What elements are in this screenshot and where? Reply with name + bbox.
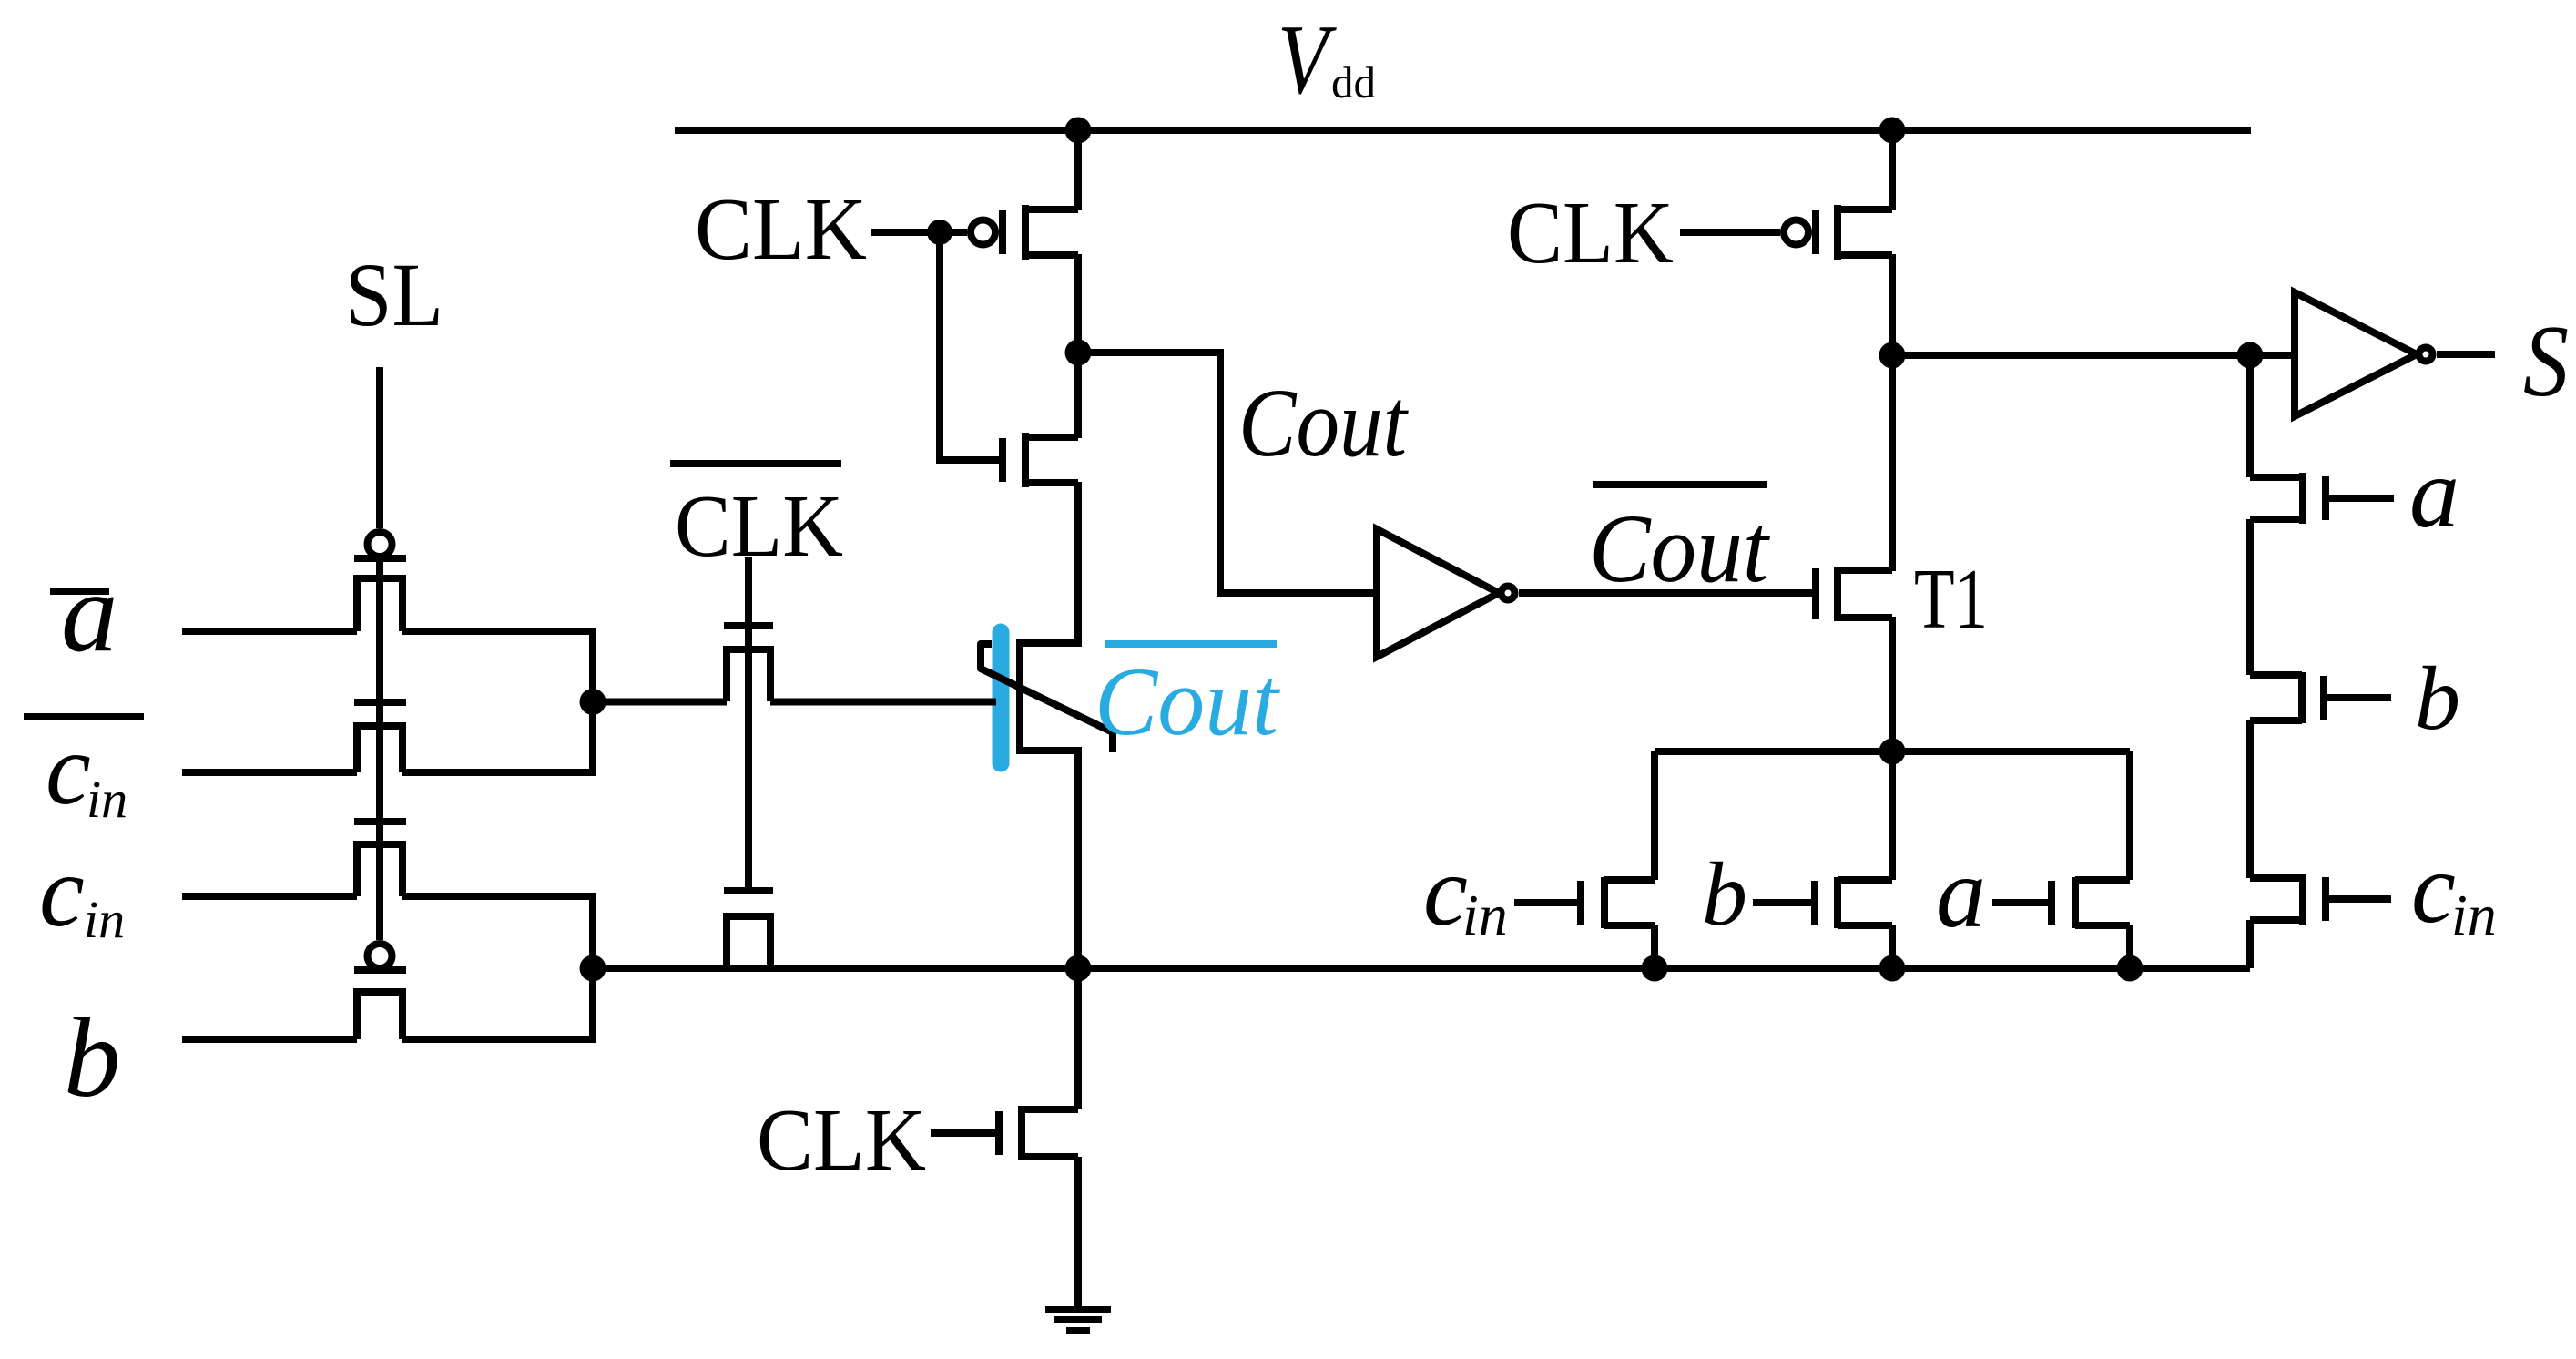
inverter U1 (Cout to Coutbar) <box>1377 529 1515 657</box>
transistor P7 channel bump <box>357 844 402 896</box>
transistor Q5 (NMOS, gate b, bottom row) <box>1815 877 1892 928</box>
svg-text:in: in <box>84 890 125 949</box>
wire CLK junction down to M2 gate <box>940 232 999 460</box>
node lower bus / left column <box>580 955 606 982</box>
transistor P8 (PMOS pass, input b) gate bar <box>354 966 406 974</box>
wire mid vertical M1 to M2 (Cout node segment) <box>1074 254 1082 438</box>
svg-text:CLK: CLK <box>1507 184 1674 281</box>
svg-text:c: c <box>46 713 91 826</box>
transistor P5 channel bump <box>357 578 402 631</box>
transistor P10 (pass, gate CLKbar, lower) gate bar <box>724 887 773 894</box>
wire CLKbar gate line <box>745 557 752 891</box>
svg-text:S: S <box>2523 305 2569 418</box>
transistor M3 (NMOS, gate CLK, bottom middle) <box>999 1106 1078 1160</box>
node S (right, at inverter input) <box>2237 342 2264 369</box>
transistor Q4 (NMOS, gate cin, bottom row) <box>1581 877 1655 928</box>
transistor M1 (PMOS, gate CLK, top middle) <box>971 205 1078 260</box>
transistor M4 (PMOS, gate CLK, top right) <box>1784 205 1892 260</box>
wire mid vertical M2 to FeFET <box>1074 482 1082 647</box>
transistor P6 (NMOS pass, input cinbar) gate bar <box>354 699 406 706</box>
node lower bus / FeFET column <box>1065 955 1092 982</box>
wire right vertical Vdd to M4 <box>1889 130 1896 210</box>
wire P9 to FeFET gate <box>770 699 996 706</box>
wire right stack vertical Q3 to lower bus <box>2246 920 2254 968</box>
power rail Vdd <box>675 127 2251 134</box>
node lower bus / Q6 <box>2117 955 2143 982</box>
wire b to lower bus <box>402 968 593 1039</box>
wire mid vertical FeFET to bus and M3 <box>1074 747 1082 1109</box>
wire mid vertical M3 to ground <box>1074 1157 1082 1310</box>
wire cin to Q3 gate <box>2327 895 2391 903</box>
svg-text:in: in <box>87 770 127 829</box>
wire abar to join column <box>402 631 593 701</box>
bubble SL / P5 gate <box>368 532 392 557</box>
transistor Q1 (NMOS, gate a, right stack) <box>2250 473 2326 524</box>
wire SL line lower <box>376 560 383 940</box>
wire Q4 to lower bus <box>1651 925 1658 968</box>
wire cin input <box>182 893 357 900</box>
svg-text:a: a <box>1936 837 1986 948</box>
node lower bus / Q4 <box>1642 955 1668 982</box>
svg-text:c: c <box>2411 833 2456 944</box>
svg-text:in: in <box>1462 883 1508 947</box>
wire right stack vertical Q1 to Q2 <box>2246 519 2254 675</box>
wire a to Q6 gate <box>1992 899 2048 906</box>
svg-text:c: c <box>1423 835 1468 946</box>
ground <box>1045 1310 1111 1331</box>
svg-text:CLK: CLK <box>675 477 843 575</box>
wire Cout node to inverter U1 input <box>1078 353 1377 593</box>
node Vdd / right column junction <box>1879 118 1906 144</box>
svg-text:CLK: CLK <box>695 180 867 278</box>
transistor M2 (NMOS, gate CLK, below M1) <box>1003 433 1078 487</box>
transistor P9 (pass, gate CLKbar, upper) gate bar <box>724 622 773 629</box>
transistor P5 (PMOS pass, input abar) gate bar <box>354 555 406 562</box>
wire abar input <box>182 628 357 635</box>
label cin (bottom row) <box>1423 835 1508 947</box>
bubble SL / P8 gate <box>368 944 392 968</box>
svg-text:b: b <box>64 996 121 1121</box>
label cin (left) <box>39 835 125 949</box>
wire right stack vertical S to Q1 <box>2246 355 2254 477</box>
node CLK junction <box>927 220 952 245</box>
wire CLK to M3 gate <box>931 1129 995 1137</box>
svg-text:CLK: CLK <box>757 1091 926 1189</box>
node upper bus / T1 column <box>1879 739 1906 765</box>
svg-text:V: V <box>1278 5 1338 115</box>
transistor P8 channel bump <box>357 992 402 1039</box>
FeFET strike-through mark <box>981 644 1113 752</box>
svg-text:b: b <box>2415 648 2460 749</box>
wire S node horizontal <box>1892 352 2295 359</box>
wire CLK to M1 bubble <box>871 229 967 236</box>
wire mid vertical Vdd to M1 <box>1074 130 1082 210</box>
wire right vertical T1 to upper bus and b-row transistor <box>1889 617 1896 880</box>
wire SL line upper <box>376 367 383 528</box>
svg-text:a: a <box>61 550 118 676</box>
upper bus (T1 drain net) <box>1655 748 2130 755</box>
node lower bus / Q5 <box>1879 955 1906 982</box>
node Vdd / mid column junction <box>1065 118 1092 144</box>
label Coutbar (black) <box>1589 485 1770 603</box>
wire b to Q2 gate <box>2327 694 2391 701</box>
wire a to Q1 gate <box>2327 495 2394 502</box>
label cin (right stack) <box>2411 833 2497 947</box>
label Vdd <box>1278 5 1376 115</box>
wire cin to Q4 gate <box>1514 899 1577 906</box>
svg-text:T1: T1 <box>1914 552 1988 647</box>
wire upper bus right end down to Q6 <box>2126 751 2133 880</box>
wire cinbar input <box>182 769 357 776</box>
svg-text:dd: dd <box>1331 57 1376 107</box>
wire join node to FeFET gate <box>593 699 727 706</box>
node abar/cinbar join <box>580 689 606 715</box>
transistor T1 (NMOS, gate Coutbar) <box>1816 567 1892 621</box>
FeFET F1 (blue-gate device, node Coutbar, highlighted) <box>981 632 1113 763</box>
svg-text:in: in <box>2451 883 2497 947</box>
wire right vertical M4 to T1 (S node segment) <box>1889 254 1896 571</box>
wire b input <box>182 1036 357 1043</box>
transistor P10 channel bump <box>727 916 770 968</box>
svg-text:b: b <box>1702 843 1747 945</box>
FeFET ferroelectric gate bar (blue) <box>993 632 1010 763</box>
svg-text:SL: SL <box>345 244 443 345</box>
label abar <box>50 550 118 676</box>
svg-text:Cout: Cout <box>1238 370 1409 477</box>
wire cinbar to join column <box>402 703 593 772</box>
wire CLK to M4 bubble <box>1680 229 1780 236</box>
transistor P7 (NMOS pass, input cin) gate bar <box>354 818 406 825</box>
transistor P6 channel bump <box>357 726 402 772</box>
lower bus (foot net) <box>593 965 2250 972</box>
transistor Q3 (NMOS, gate cin, right stack) <box>2250 874 2326 925</box>
label cinbar <box>24 713 144 829</box>
transistor Q2 (NMOS, gate b, right stack) <box>2250 672 2324 723</box>
FeFET channel and legs <box>1020 639 1078 754</box>
transistor Q6 (NMOS, gate a, bottom row) <box>2052 877 2130 928</box>
wire U1 output to T1 gate <box>1519 589 1812 597</box>
wire right vertical b-row transistor to lower bus <box>1889 925 1896 968</box>
wire right stack vertical Q2 to Q3 <box>2246 720 2254 878</box>
label Coutbar (cyan) <box>1095 644 1280 756</box>
transistor P9 channel bump <box>727 649 770 701</box>
wire U2 output <box>2437 351 2495 358</box>
node S (left) <box>1879 342 1906 369</box>
svg-text:Cout: Cout <box>1095 649 1280 756</box>
svg-text:a: a <box>2409 437 2459 548</box>
wire upper bus left end down to Q4 <box>1651 751 1658 880</box>
svg-text:Cout: Cout <box>1589 496 1770 603</box>
inverter U2 (S output) <box>2295 292 2433 416</box>
svg-text:c: c <box>39 835 85 948</box>
label CLKbar <box>670 464 843 575</box>
wire b to Q5 gate <box>1753 899 1811 906</box>
node Cout <box>1065 340 1092 366</box>
wire Q6 to lower bus <box>2126 925 2133 968</box>
wire cin to lower bus <box>402 896 593 968</box>
